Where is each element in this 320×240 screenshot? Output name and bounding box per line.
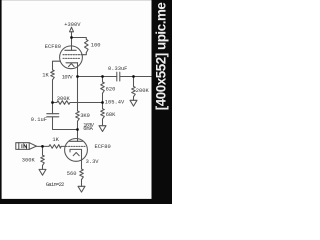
svg-text:0.33uF: 0.33uF <box>108 66 127 72</box>
tube U2 grid <box>66 145 86 147</box>
power symbol +300V arrow <box>70 27 74 37</box>
node 107V junction <box>76 75 79 78</box>
tube U1 cathode <box>66 62 78 64</box>
svg-text:ECF80: ECF80 <box>95 144 111 150</box>
wire IN to junction <box>36 145 49 147</box>
resistor R5 200K <box>133 77 135 87</box>
resistor R9 300K input <box>41 155 45 165</box>
resistor R10 560 <box>80 169 84 180</box>
svg-text:6mA: 6mA <box>83 126 93 132</box>
ground G3 <box>39 169 46 175</box>
wire node A to 300K feedback <box>53 102 57 104</box>
tube U1 screen grid g2 <box>63 54 82 56</box>
resistor R1 100 (screen) <box>85 40 89 53</box>
node B junction 105.4V <box>101 101 104 104</box>
white page background <box>0 0 172 204</box>
faint top edge <box>0 0 172 2</box>
tube U1 heater <box>69 64 75 67</box>
wire B+ to resistor R1 <box>72 38 87 40</box>
wire cathode V2 to R10 <box>81 152 83 169</box>
tube U1 ECF80 envelope <box>60 46 83 69</box>
svg-text:3.3V: 3.3V <box>86 159 100 165</box>
wire grid V1 to R2 <box>53 61 61 70</box>
wire R7 to tube V2 plate <box>77 121 79 141</box>
tube U2 cathode <box>70 149 82 152</box>
svg-text:107V: 107V <box>62 74 74 80</box>
svg-text:68K: 68K <box>106 112 116 118</box>
wire C2 to plate V2 <box>53 117 78 130</box>
svg-text:300K: 300K <box>22 158 36 164</box>
black right watermark strip <box>152 0 173 204</box>
svg-text:300K: 300K <box>57 96 71 102</box>
wire C1 to right edge <box>120 76 152 78</box>
wire B+ vertical to tube V1 plate <box>71 38 73 51</box>
black bottom border <box>0 199 172 204</box>
junction dots <box>41 36 135 148</box>
svg-text:200K: 200K <box>136 88 150 94</box>
label IN <box>22 144 27 148</box>
svg-text:+300V: +300V <box>64 22 81 28</box>
svg-text:Gain=22: Gain=22 <box>46 182 64 188</box>
wire cathode V1 down to node 107V <box>77 63 79 77</box>
capacitor C2 0.1uF <box>47 113 59 115</box>
svg-text:560: 560 <box>67 171 77 177</box>
resistor R6 300K feedback <box>57 101 70 105</box>
svg-text:105.4V: 105.4V <box>105 99 125 105</box>
resistor R3 620 <box>102 77 104 83</box>
svg-text:100: 100 <box>91 42 101 48</box>
node 200K junction <box>132 75 135 78</box>
node output/620 junction <box>101 75 104 78</box>
wire R6 to node B <box>70 102 103 104</box>
black left border <box>0 0 2 204</box>
wire 107V node down to R7 <box>77 77 79 112</box>
wire output node horizontal <box>78 76 117 78</box>
svg-text:[400x552] upic.me: [400x552] upic.me <box>154 3 169 111</box>
svg-text:ECF80: ECF80 <box>45 44 61 50</box>
resistor R4 68K <box>102 103 104 109</box>
svg-text:3K9: 3K9 <box>80 113 90 119</box>
wire node A to C2 <box>52 103 54 114</box>
input port IN flag <box>16 143 37 150</box>
tube U1 control grid g1 <box>63 57 80 59</box>
svg-text:1K: 1K <box>52 137 59 143</box>
ground G2 <box>130 100 137 106</box>
capacitor C1 0.33uF <box>116 72 118 81</box>
node plate V2 junction 163V <box>76 128 79 131</box>
tube U2 ECF80 envelope <box>65 139 88 162</box>
resistor R8 1K grid stopper <box>49 145 61 149</box>
wire R2 to node A <box>52 80 54 103</box>
svg-text:620: 620 <box>106 87 116 93</box>
tube U2 heater <box>73 153 79 156</box>
ground G1 <box>99 126 106 132</box>
wire junction to R9 <box>42 146 44 155</box>
resistor R2 1K grid <box>51 70 55 80</box>
node A junction (1K/300K/0.1uF) <box>51 101 54 104</box>
tube U2 plate <box>70 140 83 142</box>
resistor R7 3K9 <box>76 111 80 121</box>
svg-text:0.1uF: 0.1uF <box>31 117 47 123</box>
node B+ junction <box>70 36 73 39</box>
ground G4 <box>78 186 85 192</box>
tube U1 plate <box>65 49 76 51</box>
wire R8 to tube V2 grid <box>61 145 65 147</box>
wire R1 to screen grid <box>82 53 86 55</box>
svg-text:1K: 1K <box>42 72 49 78</box>
node input junction <box>41 145 44 148</box>
